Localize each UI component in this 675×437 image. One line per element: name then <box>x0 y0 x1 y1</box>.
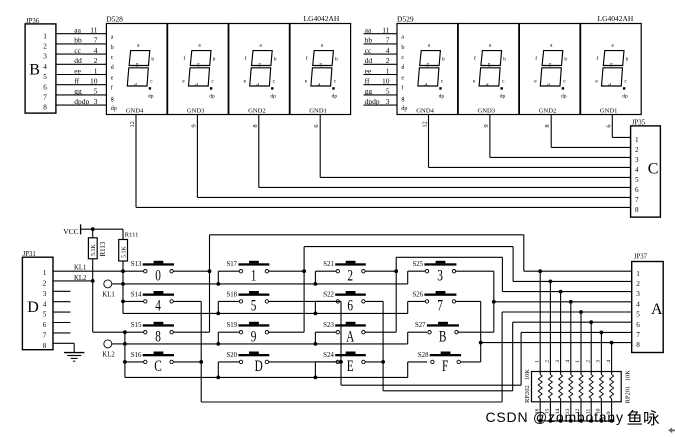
wire S13 right to return junction <box>173 270 209 272</box>
svg-text:b: b <box>213 56 216 62</box>
D529 digit cell 2 (GND3) <box>458 24 519 115</box>
svg-text:GND2: GND2 <box>539 107 557 114</box>
wire segment net d to D529 pin 3 <box>364 97 398 106</box>
pushbutton switch S20 key D <box>227 352 270 375</box>
svg-text:3: 3 <box>636 290 640 298</box>
svg-text:gg: gg <box>74 87 82 96</box>
pushbutton switch S26 key 7 <box>413 291 457 314</box>
svg-text:b: b <box>564 56 567 62</box>
svg-text:cc: cc <box>365 46 372 55</box>
wire segment net e to D529 pin 1 <box>364 66 398 75</box>
junction key0 return <box>208 269 212 273</box>
svg-text:f: f <box>183 55 185 62</box>
junction KL1 feed row0 <box>121 282 125 286</box>
svg-text:b: b <box>626 56 629 62</box>
svg-text:4: 4 <box>635 166 639 174</box>
svg-text:S13: S13 <box>131 261 142 268</box>
junction key3 return to pin4 <box>492 300 496 304</box>
svg-text:S28: S28 <box>418 352 429 359</box>
svg-text:2: 2 <box>635 146 639 154</box>
svg-text:3: 3 <box>437 267 443 284</box>
svg-text:2: 2 <box>636 280 640 288</box>
D528 digit cell 3 (GND2) <box>229 24 290 115</box>
wire KL2 vertical to row 8 <box>93 281 146 332</box>
svg-text:g: g <box>610 62 613 68</box>
wire return net keys 0/8 to JP37 pin 1 <box>210 235 632 332</box>
junction KL1/R111 <box>121 269 125 273</box>
svg-text:D529: D529 <box>397 14 414 23</box>
svg-text:g: g <box>401 96 404 102</box>
wire segment net d to D529 pin 2 <box>364 56 398 65</box>
svg-text:KL1: KL1 <box>74 264 86 271</box>
wire segment net g from JP36 pin 7 to D528 pin 5 <box>56 87 107 96</box>
svg-text:g: g <box>197 62 200 68</box>
junction JP37 pin 3 / pullup lead 3 <box>559 290 563 294</box>
junction JP37 pin 8 / pullup lead 8 <box>610 341 614 345</box>
svg-text:RP201: RP201 <box>624 386 631 404</box>
wire segment net c from JP36 pin 3 to D528 pin 4 <box>56 46 107 55</box>
junction feed row 0 col 2 <box>216 282 220 286</box>
junction pullup 1 to VCC bus <box>538 419 542 423</box>
svg-text:2: 2 <box>585 360 591 363</box>
svg-text:1: 1 <box>386 66 390 75</box>
wire S17 right to return junction <box>269 270 305 272</box>
svg-text:6: 6 <box>347 297 353 314</box>
wire segment net b to D529 pin 7 <box>364 36 398 45</box>
7-seg digit segments of GND2 cell <box>250 51 274 90</box>
svg-text:gg: gg <box>365 87 373 96</box>
junction feed row 3 col 2 <box>216 376 220 380</box>
wire S25 right to return corner <box>456 270 494 272</box>
pushbutton switch S19 key 9 <box>227 322 270 345</box>
connector JP36 <box>25 18 56 113</box>
wire VCC rail to pullup resistors <box>81 228 123 230</box>
wire GND3 of D528 pin 9 to JP35 pin 7 <box>190 115 630 198</box>
svg-text:4: 4 <box>565 360 571 363</box>
7-seg digit segments of GND3 cell <box>189 51 213 90</box>
svg-text:g: g <box>426 62 429 68</box>
svg-text:e: e <box>182 78 185 84</box>
svg-text:a: a <box>111 35 114 41</box>
svg-text:CSDN @zombotany: CSDN @zombotany <box>486 409 624 425</box>
svg-text:b: b <box>151 56 154 62</box>
svg-text:0: 0 <box>155 267 161 284</box>
svg-text:dp: dp <box>209 93 215 99</box>
wire GND3 of D529 pin 9 to JP35 pin 3 <box>483 115 631 158</box>
wire S28 right to return corner <box>460 361 480 363</box>
svg-text:JP37: JP37 <box>634 253 648 260</box>
wire segment net f to D529 pin 10 <box>364 77 398 86</box>
pushbutton switch S24 key E <box>323 352 366 375</box>
svg-text:7: 7 <box>94 36 98 45</box>
svg-text:S15: S15 <box>131 322 142 329</box>
svg-text:1: 1 <box>43 269 47 277</box>
wire S19 right to return <box>269 331 305 333</box>
pullup resistor element 1 lead <box>538 271 542 421</box>
svg-text:ee: ee <box>74 66 81 75</box>
svg-text:b: b <box>503 56 506 62</box>
junction pullup 5 to VCC bus <box>579 419 583 423</box>
svg-text:4: 4 <box>43 300 47 308</box>
pullup resistor element 5 lead <box>579 312 583 421</box>
pushbutton switch S14 key 4 <box>131 291 174 314</box>
7-seg digit segments of GND2 cell <box>540 51 564 90</box>
svg-text:g: g <box>549 62 552 68</box>
svg-text:JP35: JP35 <box>632 120 646 127</box>
svg-text:4: 4 <box>606 360 612 363</box>
wire rowC from KL2 to S16 <box>125 361 145 363</box>
junction KL2/R113 <box>91 279 95 283</box>
svg-text:f: f <box>596 55 598 62</box>
svg-text:a: a <box>611 42 614 48</box>
D529 digit cell 4 (GND1) <box>581 24 642 115</box>
svg-text:4: 4 <box>386 46 390 55</box>
7-seg digit segments of GND1 cell <box>602 51 626 90</box>
junction pullup 2 to VCC bus <box>549 419 553 423</box>
svg-text:e: e <box>595 78 598 84</box>
pushbutton switch S22 key 6 <box>323 291 366 314</box>
wire stub JP31 pin 4 <box>53 301 71 303</box>
svg-text:c: c <box>401 55 404 61</box>
svg-text:KL2: KL2 <box>74 275 87 282</box>
D528 digit cell 1 (GND4) <box>106 24 167 115</box>
svg-text:c: c <box>334 78 337 84</box>
junction feed row 2 col 2 <box>216 342 220 346</box>
svg-text:S23: S23 <box>323 322 334 329</box>
svg-text:S18: S18 <box>227 291 238 298</box>
junction feed row 3 col 3 <box>314 376 318 380</box>
wire KL1 vertical to row 4 feed <box>122 271 124 313</box>
svg-text:6: 6 <box>313 124 320 128</box>
svg-text:dp: dp <box>332 93 338 99</box>
display block D528 (4-digit 7-segment, LG4042AH) <box>106 14 340 24</box>
svg-text:c: c <box>502 78 505 84</box>
svg-text:dp: dp <box>500 93 506 99</box>
svg-text:GND3: GND3 <box>187 107 205 114</box>
svg-text:11: 11 <box>90 26 97 35</box>
svg-text:12: 12 <box>422 121 429 128</box>
svg-text:7: 7 <box>43 94 47 102</box>
wire S18 right to return corner <box>269 300 341 302</box>
svg-text:6: 6 <box>636 321 640 329</box>
svg-text:C: C <box>648 161 659 178</box>
wire KL2 vertical row8 to rowC feed <box>124 332 126 377</box>
junction pullup 6 to VCC bus <box>589 419 593 423</box>
wire S22 right to return corner <box>365 300 383 302</box>
svg-text:8: 8 <box>544 124 551 127</box>
svg-text:JP31: JP31 <box>23 251 36 258</box>
svg-text:E: E <box>347 357 354 374</box>
D529 digit cell 1 (GND4) <box>397 24 458 115</box>
svg-text:9: 9 <box>483 124 490 127</box>
pushbutton switch S28 key F <box>418 352 461 375</box>
wire S26 right to return corner <box>456 300 481 302</box>
svg-text:6: 6 <box>43 321 47 329</box>
wire GND4 of D528 pin 12 to JP35 pin 8 <box>129 115 631 208</box>
svg-text:a: a <box>401 35 404 41</box>
connector JP31 <box>22 251 53 350</box>
svg-text:鱼咏: 鱼咏 <box>627 409 661 428</box>
svg-text:GND4: GND4 <box>126 107 144 114</box>
junction JP37 pin 6 / pullup lead 6 <box>589 320 593 324</box>
svg-text:1: 1 <box>43 32 47 40</box>
svg-text:6: 6 <box>605 124 612 128</box>
svg-text:D528: D528 <box>106 14 123 23</box>
svg-text:1: 1 <box>635 136 639 144</box>
wire return net keys 3/B to JP37 pin 4 <box>494 271 632 332</box>
svg-text:GND1: GND1 <box>600 107 618 114</box>
svg-text:10: 10 <box>90 77 98 86</box>
svg-text:S19: S19 <box>227 322 238 329</box>
wire S16 right to return junction <box>173 361 201 363</box>
connector JP35 <box>631 120 661 218</box>
7-seg digit segments of GND4 cell <box>418 51 442 90</box>
D528 digit cell 4 (GND1) <box>290 24 351 115</box>
svg-text:KL2: KL2 <box>102 352 115 359</box>
svg-text:RP202: RP202 <box>524 385 531 403</box>
svg-text:e: e <box>305 78 308 84</box>
svg-text:b: b <box>111 45 114 51</box>
pushbutton switch S23 key A <box>323 322 366 345</box>
pullup resistor element 2 lead <box>548 281 552 421</box>
svg-text:6: 6 <box>635 186 639 194</box>
svg-text:3: 3 <box>635 156 639 164</box>
svg-text:f: f <box>245 55 247 62</box>
svg-text:3: 3 <box>386 97 390 106</box>
svg-text:dp: dp <box>148 93 154 99</box>
svg-text:c: c <box>441 78 444 84</box>
wire return net keys 1/9 to JP37 pin 2 <box>304 247 632 333</box>
wire return net keys 6/E to JP37 pin 6 <box>383 301 632 390</box>
svg-text:dd: dd <box>365 56 373 65</box>
wire pullup common bus <box>540 420 611 422</box>
D529 digit cell 3 (GND2) <box>519 24 580 115</box>
wire segment net e from JP36 pin 5 to D528 pin 1 <box>56 66 107 75</box>
wire return net keys 5/D to JP37 pin 7 <box>341 301 632 385</box>
svg-text:dpdp: dpdp <box>365 97 380 106</box>
svg-text:f: f <box>401 85 403 92</box>
svg-text:2: 2 <box>347 267 353 284</box>
svg-text:7: 7 <box>635 196 639 204</box>
wire scan feed line row 2 <box>125 332 427 344</box>
svg-text:dp: dp <box>439 93 445 99</box>
svg-text:LG4042AH: LG4042AH <box>304 14 340 23</box>
svg-text:g: g <box>319 62 322 68</box>
svg-text:g: g <box>111 96 114 102</box>
svg-text:8: 8 <box>636 341 640 349</box>
svg-text:4: 4 <box>94 46 98 55</box>
svg-text:b: b <box>442 56 445 62</box>
svg-text:e: e <box>473 78 476 84</box>
svg-text:aa: aa <box>365 26 372 35</box>
wire scan feed line row 1 <box>123 301 427 313</box>
resistor R113 5.1K <box>88 229 107 281</box>
wire segment net f from JP36 pin 6 to D528 pin 10 <box>56 77 107 86</box>
svg-text:a: a <box>550 42 553 48</box>
svg-text:3: 3 <box>94 97 98 106</box>
svg-text:b: b <box>274 56 277 62</box>
svg-text:3: 3 <box>596 360 602 363</box>
svg-text:1: 1 <box>94 66 98 75</box>
wire net KL2 from JP31 pin 2 <box>53 275 93 282</box>
wire return net keys 2/A to JP37 pin 3 <box>396 257 632 332</box>
svg-text:dpdp: dpdp <box>74 97 89 106</box>
wire segment net c to D529 pin 4 <box>364 46 398 55</box>
junction feed row 1 col 2 <box>216 312 220 316</box>
svg-text:1: 1 <box>636 270 640 278</box>
svg-text:R111: R111 <box>125 231 139 238</box>
svg-text:c: c <box>563 78 566 84</box>
svg-text:f: f <box>111 85 113 92</box>
watermark <box>486 409 661 428</box>
svg-text:a: a <box>137 42 140 48</box>
svg-text:GND1: GND1 <box>309 107 327 114</box>
svg-text:3: 3 <box>43 53 47 61</box>
junction pullup 8 to VCC bus <box>610 419 614 423</box>
connector JP37 <box>632 253 664 352</box>
svg-text:4: 4 <box>43 63 47 71</box>
svg-text:S14: S14 <box>131 291 142 298</box>
svg-text:8: 8 <box>252 124 259 127</box>
svg-text:1: 1 <box>575 360 581 363</box>
svg-text:S17: S17 <box>227 261 238 268</box>
junction KL2 feed row8 <box>123 342 127 346</box>
svg-text:S25: S25 <box>413 261 424 268</box>
svg-text:5: 5 <box>43 311 47 319</box>
resistor network box RP202/RP201 <box>532 372 622 402</box>
svg-text:f: f <box>306 55 308 62</box>
svg-text:bb: bb <box>74 36 82 45</box>
svg-text:g: g <box>258 62 261 68</box>
svg-text:4: 4 <box>155 297 161 314</box>
svg-text:dd: dd <box>74 56 82 65</box>
pushbutton switch S16 key C <box>131 352 174 375</box>
junction key D return <box>339 360 343 364</box>
svg-text:c: c <box>273 78 276 84</box>
svg-text:VCC: VCC <box>63 227 78 236</box>
junction JP37 pin 2 / pullup lead 2 <box>549 280 553 284</box>
svg-text:D: D <box>27 299 39 316</box>
wire S14 right to return corner <box>173 300 201 302</box>
junction feed row 0 col 3 <box>314 282 318 286</box>
wire stub JP31 pin 5 <box>53 311 71 313</box>
svg-text:S26: S26 <box>413 291 424 298</box>
junction key E return <box>381 360 385 364</box>
svg-text:cc: cc <box>74 46 81 55</box>
svg-text:C: C <box>154 357 162 374</box>
svg-text:ff: ff <box>74 77 79 86</box>
7-seg digit segments of GND3 cell <box>479 51 503 90</box>
svg-text:A: A <box>651 301 663 318</box>
wire GND2 of D528 pin 8 to JP35 pin 6 <box>252 115 631 188</box>
svg-text:R113: R113 <box>99 241 107 256</box>
svg-text:S21: S21 <box>323 261 334 268</box>
wire GND2 of D529 pin 8 to JP35 pin 2 <box>544 115 630 148</box>
svg-text:5: 5 <box>94 87 98 96</box>
svg-text:7: 7 <box>43 332 47 340</box>
svg-text:dp: dp <box>401 106 407 112</box>
wire segment net a from JP36 pin 1 to D528 pin 11 <box>56 26 107 35</box>
wire segment net g to D529 pin 5 <box>364 87 398 96</box>
svg-text:1: 1 <box>251 267 257 284</box>
wire segment net a to D529 pin 11 <box>364 26 398 35</box>
svg-text:GND3: GND3 <box>478 107 496 114</box>
wire net KL1 from JP31 pin 1 to S13 <box>53 264 145 271</box>
svg-text:S24: S24 <box>323 352 334 359</box>
svg-text:JP36: JP36 <box>26 18 40 25</box>
pushbutton switch S25 key 3 <box>413 261 457 284</box>
wire GND4 of D529 pin 12 to JP35 pin 4 <box>422 115 631 168</box>
pushbutton switch S21 key 2 <box>323 261 366 284</box>
wire GND1 of D529 pin 6 to JP35 pin 1 <box>605 115 630 138</box>
wire JP31 pin 8 to ground <box>53 343 74 352</box>
terminal KL1 <box>102 280 123 299</box>
svg-text:7: 7 <box>386 36 390 45</box>
display block D529 (4-digit 7-segment, LG4042AH) <box>397 14 634 24</box>
svg-text:f: f <box>474 55 476 62</box>
svg-text:5: 5 <box>635 176 639 184</box>
svg-text:10K: 10K <box>524 369 531 381</box>
wire row4 from KL1 to S14 <box>123 300 145 302</box>
wire segment net d from JP36 pin 8 to D528 pin 3 <box>56 97 107 106</box>
junction JP37 pin 1 / pullup lead 1 <box>538 269 542 273</box>
label RP202 10K <box>524 369 531 403</box>
svg-text:dp: dp <box>561 93 567 99</box>
svg-text:2: 2 <box>545 360 551 363</box>
wire S15 right to return <box>173 331 209 333</box>
svg-text:4: 4 <box>636 300 640 308</box>
pullup resistor element 3 lead <box>559 292 563 421</box>
wire stub JP31 pin 3 <box>53 290 71 292</box>
wire stub JP31 pin 7 <box>53 332 71 334</box>
terminal KL2 <box>102 340 125 359</box>
svg-text:B: B <box>439 328 447 345</box>
wire S24 right to return junction <box>365 361 383 363</box>
svg-text:b: b <box>335 56 338 62</box>
svg-text:KL1: KL1 <box>102 291 114 298</box>
label RP201 10K <box>624 370 631 404</box>
D529 segment pin letters a-dp <box>401 35 407 112</box>
pushbutton switch S13 key 0 <box>131 261 174 284</box>
wire segment net d from JP36 pin 4 to D528 pin 2 <box>56 56 107 65</box>
wire S23 right to return <box>365 331 396 333</box>
svg-text:a: a <box>428 42 431 48</box>
svg-text:F: F <box>442 357 449 374</box>
svg-text:c: c <box>211 78 214 84</box>
pushbutton switch S17 key 1 <box>227 261 270 284</box>
svg-text:9: 9 <box>251 328 257 345</box>
svg-text:d: d <box>401 65 404 71</box>
wire return net keys 4/C to JP37 pin 5 <box>201 301 632 402</box>
wire S21 right to return junction <box>365 270 396 272</box>
svg-text:c: c <box>624 78 627 84</box>
svg-text:f: f <box>535 55 537 62</box>
svg-text:7: 7 <box>437 297 443 314</box>
svg-text:g: g <box>488 62 491 68</box>
svg-text:S22: S22 <box>323 291 334 298</box>
svg-text:5.1K: 5.1K <box>91 244 97 257</box>
svg-text:7: 7 <box>636 331 640 339</box>
7-seg digit segments of GND1 cell <box>311 51 335 90</box>
junction pullup 3 to VCC bus <box>559 419 563 423</box>
svg-text:a: a <box>489 42 492 48</box>
svg-text:S27: S27 <box>415 322 426 329</box>
svg-text:aa: aa <box>74 26 81 35</box>
svg-text:8: 8 <box>635 206 639 214</box>
svg-text:g: g <box>136 62 139 68</box>
svg-text:dp: dp <box>111 106 117 112</box>
resistor R111 5.1K <box>119 229 139 271</box>
